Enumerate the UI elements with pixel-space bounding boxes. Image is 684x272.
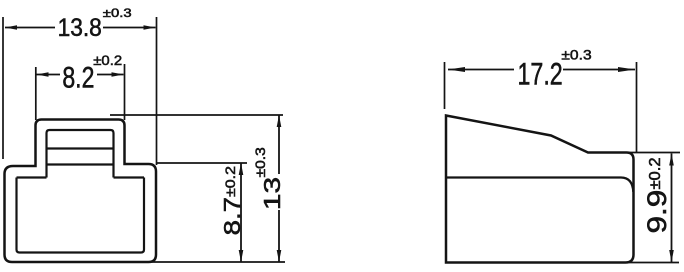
svg-text:±0.2: ±0.2 [93, 53, 122, 68]
svg-text:17.2: 17.2 [517, 56, 562, 91]
svg-text:8.7: 8.7 [220, 197, 245, 235]
svg-text:±0.2: ±0.2 [646, 157, 664, 189]
svg-text:13.8: 13.8 [58, 14, 102, 42]
svg-text:±0.3: ±0.3 [254, 147, 269, 177]
svg-text:13: 13 [259, 177, 285, 210]
svg-text:8.2: 8.2 [62, 60, 94, 94]
svg-text:9.9: 9.9 [642, 190, 672, 234]
svg-text:±0.3: ±0.3 [103, 6, 132, 19]
svg-text:±0.2: ±0.2 [223, 166, 239, 197]
svg-text:±0.3: ±0.3 [561, 47, 591, 63]
